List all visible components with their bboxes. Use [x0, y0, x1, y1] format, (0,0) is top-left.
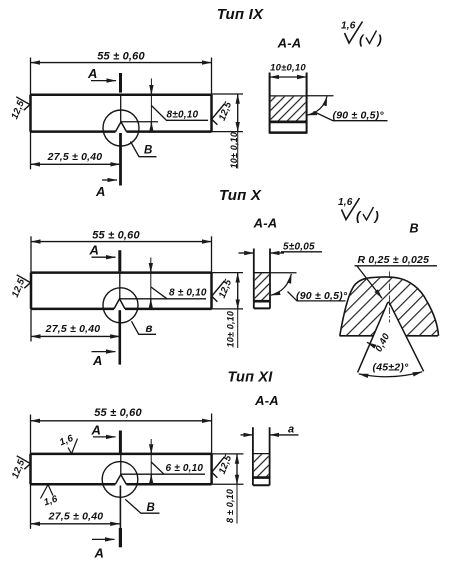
svg-text:А-А: А-А	[253, 216, 278, 231]
svg-text:): )	[373, 209, 380, 224]
roughness 12,5 left edge type XI	[10, 456, 31, 480]
roughness 12,5 right edge type X	[212, 277, 235, 301]
svg-text:Тип XI: Тип XI	[228, 370, 274, 386]
roughness 12,5 left edge type X	[10, 275, 31, 299]
section A-A fig1 outline	[270, 73, 307, 134]
section A-A label fig3	[254, 393, 279, 408]
svg-text:10± 0,10: 10± 0,10	[229, 132, 239, 169]
svg-text:а: а	[288, 423, 294, 435]
svg-text:(90 ± 0,5)°: (90 ± 0,5)°	[333, 110, 385, 122]
roughness symbol 1,6 (check) top right	[341, 21, 382, 48]
section cut line A-A type X	[118, 250, 121, 364]
notch V type XI	[115, 475, 126, 485]
section A-A fig2 outline	[254, 249, 270, 309]
svg-text:1,6: 1,6	[338, 197, 353, 208]
section cut line A-A type XI	[119, 431, 122, 548]
dimension 8+-0,10 type XI	[225, 454, 237, 523]
svg-text:R 0,25 ± 0,025: R 0,25 ± 0,025	[358, 254, 430, 266]
label A bottom with arrow type X	[92, 352, 116, 368]
svg-text:27,5 ± 0,40: 27,5 ± 0,40	[47, 151, 103, 163]
svg-text:55 ± 0,60: 55 ± 0,60	[94, 407, 142, 419]
detail B notch V legs	[358, 302, 424, 372]
svg-text:А-А: А-А	[254, 393, 279, 408]
svg-text:А: А	[89, 243, 100, 258]
svg-text:5±0,05: 5±0,05	[283, 242, 315, 253]
svg-text:в: в	[146, 323, 153, 335]
svg-text:Тип X: Тип X	[219, 187, 262, 204]
svg-text:12,5: 12,5	[217, 100, 235, 122]
notch detail circle type XI	[102, 462, 138, 498]
section A-A fig3: dimension a	[241, 423, 299, 435]
title Tip X	[219, 187, 262, 204]
right edge extension up type XI	[211, 414, 213, 454]
svg-text:12,5: 12,5	[217, 453, 235, 475]
svg-text:55 ± 0,60: 55 ± 0,60	[97, 51, 145, 63]
svg-text:1,6: 1,6	[58, 433, 75, 449]
dimension 10+-0,10 type IX	[229, 94, 239, 168]
roughness 1,6 bottom surface type XI	[41, 485, 60, 509]
right edge extension lines type IX	[212, 94, 244, 132]
svg-text:(: (	[356, 209, 362, 224]
right edge extension up type IX	[211, 58, 213, 95]
notch V type X	[114, 299, 125, 309]
svg-text:1,6: 1,6	[43, 493, 60, 508]
svg-text:10±0,10: 10±0,10	[270, 62, 306, 73]
svg-text:10± 0,10: 10± 0,10	[225, 311, 235, 348]
section cut line A-A type IX	[119, 73, 122, 186]
svg-text:(90 ± 0,5)°: (90 ± 0,5)°	[296, 290, 348, 302]
svg-text:8 ± 0,10: 8 ± 0,10	[169, 287, 207, 298]
left extension line type IX	[30, 58, 32, 170]
dimension 27,5+-0,40 type XI	[31, 510, 120, 524]
dimension 8+-0,10 type IX	[121, 79, 208, 132]
right edge extension up type X	[211, 236, 213, 272]
detail B blob outline	[340, 277, 439, 336]
right edge extension lines type X	[212, 273, 244, 309]
svg-text:А: А	[95, 184, 106, 199]
dimension 6+-0,10 type XI	[121, 439, 205, 484]
label A bottom with arrow type XI	[92, 539, 115, 560]
svg-text:А: А	[92, 353, 103, 368]
svg-text:Тип IX: Тип IX	[217, 6, 264, 23]
detail B notch centerline	[388, 272, 390, 323]
svg-text:(: (	[359, 32, 365, 47]
notch V type IX	[116, 122, 127, 132]
svg-text:8±0,10: 8±0,10	[167, 110, 199, 121]
svg-text:0,40: 0,40	[373, 331, 392, 354]
right edge extension lines type XI	[212, 454, 244, 484]
svg-text:А-А: А-А	[277, 36, 302, 51]
label B leader type IX	[131, 142, 157, 157]
svg-text:А: А	[87, 66, 98, 81]
detail B bottom surface lines	[340, 335, 438, 337]
label A bottom with arrow type IX	[95, 180, 117, 199]
dimension 55+-0,60 type IX	[31, 51, 212, 63]
specimen bar type XI outline	[31, 454, 212, 484]
detail B radius note R 0,25	[355, 254, 438, 298]
left extension line type X	[30, 236, 32, 341]
svg-text:(45±2)°: (45±2)°	[373, 362, 409, 374]
roughness 12,5 right edge type XI	[212, 453, 235, 478]
label A top with arrow type XI	[91, 422, 116, 437]
section A-A label fig2	[253, 216, 278, 231]
title Tip XI	[228, 370, 274, 386]
specimen bar type IX outline	[31, 95, 212, 132]
angle (90+-0,5) note fig2	[270, 273, 348, 302]
svg-text:12,5: 12,5	[217, 277, 235, 299]
svg-text:55 ± 0,60: 55 ± 0,60	[92, 229, 140, 241]
svg-text:8 ± 0,10: 8 ± 0,10	[225, 489, 235, 523]
svg-text:1,6: 1,6	[341, 21, 356, 32]
notch detail circle type X	[103, 288, 138, 323]
detail view B label fig2	[410, 222, 419, 236]
left extension line type XI	[30, 415, 32, 529]
label A top with arrow type IX	[87, 66, 116, 81]
svg-text:27,5 ± 0,40: 27,5 ± 0,40	[48, 510, 104, 522]
dimension 27,5+-0,40 type IX	[31, 151, 121, 164]
svg-text:27,5 ± 0,40: 27,5 ± 0,40	[45, 323, 101, 335]
section A-A fig1: dimension 10+-0,10	[270, 62, 307, 77]
svg-text:А: А	[91, 422, 102, 437]
dimension 55+-0,60 type X	[31, 229, 212, 241]
roughness 1,6 top surface type XI	[58, 433, 77, 454]
dimension 10+-0,10 type X	[225, 273, 237, 348]
detail B hatching	[340, 277, 439, 336]
dimension 8+-0,10 type X	[120, 258, 207, 309]
roughness 12,5 left edge type IX	[9, 97, 30, 121]
title Tip IX	[217, 6, 264, 23]
angle (90+-0,5) note fig1	[307, 96, 388, 122]
roughness symbol 1,6 (check) fig2	[338, 197, 379, 224]
dimension 27,5+-0,40 type X	[31, 323, 120, 337]
detail B depth 0,40 note	[367, 331, 392, 354]
svg-text:6 ± 0,10: 6 ± 0,10	[166, 463, 204, 474]
label A top with arrow type X	[89, 243, 116, 258]
svg-text:В: В	[410, 222, 419, 236]
svg-text:А: А	[94, 546, 105, 561]
dimension 55+-0,60 type XI	[31, 407, 212, 421]
section A-A label fig1	[277, 36, 302, 51]
svg-text:В: В	[147, 502, 156, 514]
section A-A fig3 outline	[253, 427, 270, 485]
section A-A fig2: dimension 5+-0,05	[239, 242, 323, 253]
roughness 12,5 right edge type IX	[212, 100, 235, 125]
notch detail circle type IX	[103, 110, 139, 146]
specimen bar type X outline	[31, 273, 212, 309]
detail B angle (45+-2)	[359, 362, 422, 377]
svg-text:В: В	[144, 145, 153, 157]
svg-text:): )	[376, 32, 383, 47]
label v leader type X	[132, 321, 157, 335]
label v leader type XI	[125, 499, 159, 514]
